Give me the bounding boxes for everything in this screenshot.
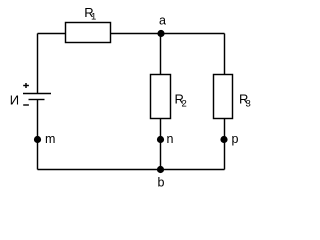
svg-text:1: 1 bbox=[91, 12, 96, 23]
svg-text:a: a bbox=[159, 14, 166, 28]
svg-text:b: b bbox=[158, 176, 165, 190]
svg-text:3: 3 bbox=[246, 99, 251, 110]
svg-text:p: p bbox=[232, 132, 239, 146]
svg-text:n: n bbox=[167, 132, 174, 146]
svg-text:2: 2 bbox=[182, 99, 187, 110]
svg-text:И: И bbox=[10, 93, 19, 108]
svg-text:m: m bbox=[45, 132, 55, 146]
